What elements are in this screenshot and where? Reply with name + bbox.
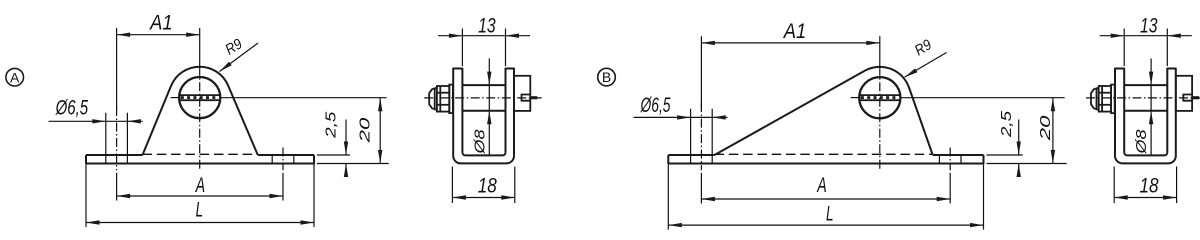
bracket B upright profile with R9 top arc — [715, 67, 933, 155]
svg-text:2,5: 2,5 — [998, 110, 1015, 138]
side view B: horizontal centerline — [1086, 97, 1200, 99]
dimension L of bracket B: extension lines — [667, 165, 669, 230]
dimension 2.5 of bracket A: dimension line with arrows — [345, 120, 347, 156]
side view B: pin head hex body — [1099, 86, 1111, 112]
side view A: pin head chamfered end cap — [429, 88, 437, 110]
side view B: base with bend radii, outer bottom — [1115, 156, 1176, 164]
dimension 18 of side view B: dimension line with arrows — [1114, 197, 1176, 199]
side view B: pin retaining tab right — [1176, 76, 1192, 111]
leader R9 of bracket A: leader line with arrow — [220, 43, 259, 72]
svg-text:Ø6,5: Ø6,5 — [640, 94, 671, 117]
dimension 13 of side view A: dimension line with arrows — [438, 35, 530, 37]
right base hole edges, bracket A — [271, 154, 273, 164]
dimension 2.5 of bracket B: dimension line with arrows — [1018, 120, 1020, 156]
side view B: right flange outline — [1167, 69, 1176, 156]
dimension 20 (hole height) of bracket A: dimension line with arrows — [379, 98, 381, 164]
side view B: pin slot stub — [1192, 96, 1199, 99]
side view B: pin flange washer — [1111, 85, 1115, 114]
left base hole D6.5 edges, bracket B — [690, 109, 692, 164]
dimension A of bracket B: dimension line with arrows — [701, 198, 950, 200]
bracket B plate top edge left segment — [668, 154, 714, 156]
dimension L of bracket A: dimension line with arrows — [86, 222, 314, 224]
svg-text:A: A — [816, 174, 827, 197]
right base hole centerline, bracket B — [949, 148, 951, 171]
dimension 2.5 (plate thickness) of bracket A: extension lines — [317, 154, 350, 156]
bracket A plate top edge right segment — [258, 154, 314, 156]
horizontal centerline extension right of hole to 20-dim, bracket B — [899, 97, 1064, 99]
dimension D6.5 of bracket A: dimension line with arrows — [49, 120, 143, 122]
dimension 18 of side view A: dimension line with arrows — [452, 197, 514, 199]
side view A: pin head washer line — [439, 86, 441, 112]
dimension A1 of bracket B: extension lines — [700, 36, 702, 109]
dimension A1 of bracket B: dimension line with arrows — [701, 42, 879, 44]
svg-text:13: 13 — [478, 14, 496, 37]
svg-text:2,5: 2,5 — [322, 111, 339, 139]
roll pin slot dashes of bracket B — [861, 96, 899, 99]
side view A: left flange outline — [453, 69, 462, 156]
side view B: hex facet lines — [1099, 92, 1111, 94]
variant label A (circled) — [6, 68, 24, 86]
dimension D8 of side view B: dimension line with arrows — [1150, 59, 1152, 156]
dimension D8 of side view A: dimension line with arrows — [488, 59, 490, 156]
side view A: pin retaining tab right — [514, 76, 530, 111]
svg-text:Ø6,5: Ø6,5 — [55, 97, 88, 120]
svg-text:Ø8: Ø8 — [1133, 129, 1150, 155]
bracket A base plate outline — [86, 155, 314, 164]
dimension 13 of side view B: extension lines — [1123, 29, 1125, 67]
bracket A upright profile with R9 top arc — [143, 67, 258, 155]
bracket B base plate outline — [668, 155, 983, 164]
bracket B plate top edge right segment — [933, 154, 984, 156]
side view B: pin head washer line — [1101, 86, 1103, 112]
svg-text:A: A — [10, 69, 20, 85]
dimension A1 of bracket A: extension lines — [116, 28, 118, 109]
dimension A of bracket A: dimension line with arrows — [117, 195, 283, 197]
side view A: pin slot stub — [530, 96, 537, 99]
svg-text:L: L — [826, 202, 834, 225]
svg-text:L: L — [196, 199, 204, 222]
roll pin slot lines across hole of bracket A — [179, 94, 220, 96]
svg-text:13: 13 — [1140, 14, 1158, 37]
bracket A plate top edge left segment — [86, 154, 143, 156]
dimension 20 (hole height) of bracket B: dimension line with arrows — [1052, 98, 1054, 164]
roll pin slot lines across hole of bracket B — [859, 94, 900, 96]
side view B: pin head chamfered end cap — [1091, 88, 1099, 110]
side view B: left flange outline — [1115, 69, 1124, 156]
dimension 18 of side view A: extension lines — [451, 167, 453, 204]
side view A: pin flange washer — [449, 85, 453, 114]
leader R9 of bracket B: leader line with arrow — [905, 53, 947, 78]
side view A: base with bend radii, outer bottom — [453, 156, 514, 164]
vertical centerline of hole, bracket A — [199, 67, 201, 171]
side view A: pin D8 upper edge — [462, 84, 505, 86]
side view A: right flange outline — [506, 69, 515, 156]
hole D8 circle of bracket B — [859, 77, 900, 118]
side view B: pin head chamfer line — [1096, 88, 1098, 109]
svg-text:20: 20 — [1037, 115, 1054, 142]
svg-text:A1: A1 — [148, 12, 172, 35]
dimension L of bracket B: dimension line with arrows — [668, 224, 983, 226]
bracket B plate top edge hidden (dashed) segment — [715, 153, 933, 155]
right base hole centerline, bracket A — [282, 148, 284, 171]
horizontal centerline stub left of hole, bracket A — [171, 97, 181, 99]
side view A: pin head hex body — [437, 86, 449, 112]
side view B: pin D8 lower edge — [1124, 110, 1167, 112]
dimension D6.5 of bracket B: dimension line with arrows — [634, 116, 728, 118]
bracket A plate top edge hidden (dashed) segment — [143, 153, 258, 155]
svg-text:18: 18 — [478, 175, 497, 198]
side view A: screwdriver slot outline in tab — [522, 95, 531, 101]
svg-text:A: A — [194, 174, 205, 197]
dimension 13 of side view B: dimension line with arrows — [1100, 35, 1192, 37]
right base hole edges, bracket B — [938, 154, 940, 164]
horizontal centerline stub left of hole, bracket B — [851, 97, 861, 99]
side view A: hex facet lines — [437, 92, 449, 94]
dimension 2.5 (plate thickness) of bracket B: extension lines — [987, 154, 1023, 156]
vertical centerline of hole, bracket B — [879, 67, 881, 171]
dimension 13 of side view A: extension lines — [461, 29, 463, 67]
left base hole centerline, bracket B — [700, 103, 702, 170]
dimension A1 of bracket A: dimension line with arrows — [117, 34, 200, 36]
horizontal centerline extension right of hole to 20-dim, bracket A — [219, 97, 386, 99]
svg-text:B: B — [602, 69, 611, 85]
left base hole centerline, bracket A — [116, 107, 118, 170]
side view B: screwdriver slot outline in tab — [1183, 95, 1192, 101]
side view A: horizontal centerline — [424, 97, 544, 99]
roll pin slot dashes of bracket A — [181, 96, 219, 99]
side view B: base inner top surface line — [1124, 152, 1167, 155]
svg-text:20: 20 — [357, 117, 374, 144]
side view B: pin D8 upper edge — [1124, 84, 1167, 86]
dimension 18 of side view B: extension lines — [1113, 167, 1115, 204]
svg-text:A1: A1 — [782, 20, 806, 43]
dimension A of bracket A: extension lines — [116, 173, 118, 201]
dimension L of bracket A: extension lines — [85, 165, 87, 228]
side view A: pin D8 lower edge — [462, 110, 505, 112]
side view A: base inner top surface line — [462, 152, 505, 155]
svg-text:Ø8: Ø8 — [471, 129, 488, 155]
dimension A of bracket B: extension lines — [700, 173, 702, 204]
variant label B (circled) — [598, 68, 616, 86]
svg-text:18: 18 — [1140, 175, 1159, 198]
hole D8 circle of bracket A — [179, 77, 220, 118]
left base hole D6.5 edges, bracket A — [105, 113, 107, 164]
side view A: pin head chamfer line — [434, 88, 436, 109]
